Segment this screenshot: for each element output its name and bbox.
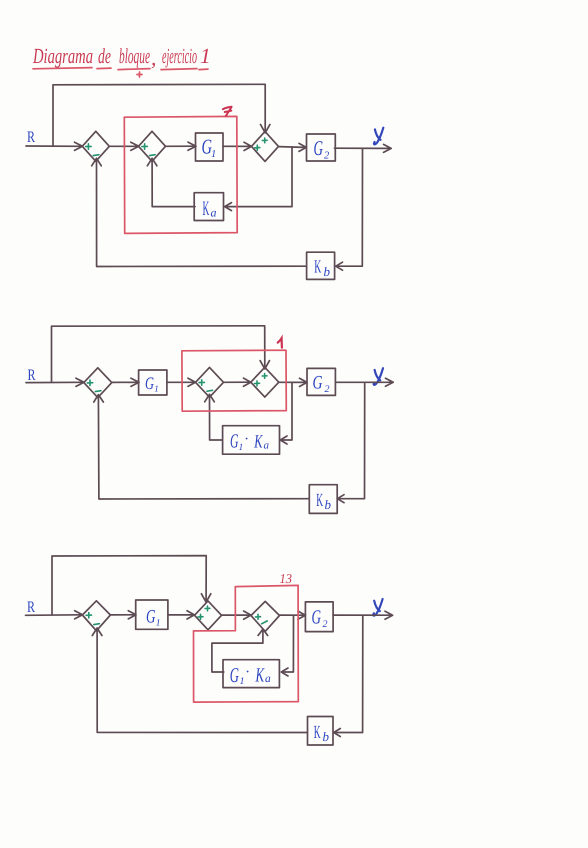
summing junction S2a: [84, 368, 112, 398]
svg-text:K: K: [254, 432, 264, 453]
svg-text:2: 2: [324, 151, 330, 162]
svg-text:K: K: [255, 665, 265, 687]
svg-text:b: b: [323, 729, 330, 744]
svg-text:a: a: [264, 440, 270, 452]
summing junction S2b: [196, 367, 224, 397]
block G2 (diagram 1): [307, 134, 336, 162]
summing junction S1a: [82, 131, 109, 161]
svg-text:1: 1: [154, 384, 159, 394]
node R (input label, diagram 3): [27, 599, 35, 616]
red label 13: [280, 571, 293, 586]
wire: S2c to block G2: [279, 378, 307, 386]
minus sign in S2a: [95, 390, 101, 393]
wire: G1Ka output left, up, right and up into S3c minus input: [212, 629, 268, 672]
wire: feedforward bypass from R line over the top into S3b: [52, 556, 211, 615]
svg-text:K: K: [203, 198, 210, 220]
summing junction S3a: [82, 601, 110, 631]
wire: feedforward bypass from R line over the top into S1c: [53, 84, 270, 146]
svg-text:R: R: [27, 129, 35, 146]
minus sign in S3a: [94, 623, 100, 626]
wire: G1Ka output left and up into S2b minus input: [205, 394, 223, 440]
svg-text:a: a: [265, 673, 271, 685]
block G1 (diagram 2): [139, 370, 167, 395]
svg-text:G: G: [146, 607, 156, 628]
minus sign in S2b: [207, 389, 213, 392]
svg-text:2: 2: [325, 384, 330, 395]
svg-text:2: 2: [323, 619, 328, 630]
svg-text:G: G: [230, 663, 239, 687]
svg-text:G: G: [145, 373, 154, 393]
plus sign in S2a: [87, 380, 92, 385]
svg-text:1: 1: [200, 44, 211, 68]
red grouping box (diagram 1): [124, 116, 237, 233]
svg-text:R: R: [28, 367, 36, 384]
minus sign in S1b: [150, 154, 156, 157]
svg-text:1: 1: [240, 676, 245, 687]
wire: Ka output left and up into S1b minus input: [147, 158, 195, 206]
wire: Kb output left and up into S2a minus input (diagram 2): [94, 395, 309, 499]
svg-text:Diagrama: Diagrama: [32, 44, 93, 68]
block G2 (diagram 3): [305, 602, 333, 632]
plus sign top in S2c: [262, 374, 267, 379]
block Ka (diagram 1): [194, 193, 223, 221]
block G1 (diagram 1): [196, 133, 224, 161]
wire: G1 to sum S2b: [167, 378, 196, 386]
wire: R input to sum S3a: [26, 611, 83, 619]
svg-text:K: K: [314, 258, 321, 278]
wire: takeoff after S3c down and left into G1Ka box (diagram 3): [281, 615, 293, 676]
title: Diagrama de bloque, ejercicio 1: [32, 44, 210, 77]
wire: G2 to output Y: [335, 144, 392, 152]
block Kb (diagram 3): [308, 717, 334, 746]
wire: Kb output left and up into S1a minus input: [92, 158, 306, 266]
plus sign left in S1c: [255, 145, 260, 150]
wire: S3b to sum S3c: [222, 611, 252, 619]
svg-text:G: G: [230, 431, 239, 453]
summing junction S2c: [251, 367, 279, 397]
block G1·Ka (diagram 3): [223, 660, 279, 688]
summing junction S3c: [251, 601, 280, 631]
wire: S3c to block G2: [280, 611, 306, 619]
wire: S2b to sum S2c: [224, 378, 251, 386]
svg-text:1: 1: [156, 619, 161, 629]
plus sign in S3c: [256, 614, 261, 619]
svg-text:G: G: [314, 136, 324, 160]
summing junction S1c: [252, 131, 279, 161]
wire: takeoff after S1c down and left into Ka: [225, 147, 292, 211]
red grouping box (diagram 3, notched outline): [194, 585, 299, 702]
wire: feedforward bypass from R line over the top into S2c: [52, 326, 270, 383]
block G2 (diagram 2): [307, 368, 335, 395]
block G1 (diagram 3): [136, 600, 168, 629]
node R (input label, diagram 1): [27, 129, 35, 146]
plus sign left in S3b: [198, 614, 203, 619]
node Y (output label, diagram 1): [374, 128, 383, 145]
node R (input label, diagram 2): [28, 367, 36, 384]
wire: G1 to sum S3b: [168, 611, 195, 619]
svg-text:R: R: [27, 599, 35, 616]
summing junction S1b: [139, 131, 166, 161]
plus sign top in S3b: [205, 606, 210, 611]
plus sign in S1a: [86, 144, 91, 149]
wire: G2 to output Y: [336, 378, 393, 386]
svg-text:ejercicio: ejercicio: [162, 44, 197, 68]
plus sign left in S2c: [255, 381, 260, 386]
svg-text:·: ·: [245, 432, 249, 448]
summing junction S3b: [195, 601, 222, 630]
svg-text:K: K: [316, 491, 323, 511]
svg-text:G: G: [313, 373, 323, 394]
red label 1: [278, 338, 282, 347]
svg-text:,: ,: [151, 46, 156, 70]
block G1·Ka (diagram 2): [223, 426, 280, 455]
wire: S2a to block G1: [112, 378, 139, 386]
node Y (output label, diagram 3): [373, 599, 382, 616]
svg-text:a: a: [211, 206, 217, 220]
red label 7: [223, 107, 232, 116]
svg-text:13: 13: [280, 571, 293, 586]
wire: G1 to sum S1c: [223, 142, 252, 150]
svg-text:de: de: [98, 44, 111, 68]
svg-text:1: 1: [239, 443, 244, 453]
svg-text:bloque: bloque: [119, 44, 150, 68]
plus sign top in S1c: [262, 138, 267, 143]
svg-text:b: b: [324, 264, 331, 279]
wire: takeoff after G2 down and left into Kb: [336, 148, 363, 270]
svg-text:·: ·: [246, 665, 250, 681]
svg-text:K: K: [314, 723, 321, 743]
wire: takeoff after G2 down and left into Kb (diagram 2): [337, 382, 364, 502]
wire: G2 to output Y: [333, 611, 393, 619]
wire: takeoff after G2 down and left into Kb (diagram 3): [334, 615, 363, 736]
red grouping box (diagram 2): [182, 350, 286, 411]
minus sign in S3c: [262, 621, 268, 624]
wire: S1a to S1b: [109, 142, 139, 150]
svg-text:b: b: [325, 497, 332, 512]
wire: S1b to block G1: [166, 142, 197, 150]
node Y (output label, diagram 2): [374, 368, 383, 385]
wire: takeoff after S2c down and left into G1Ka box: [280, 382, 292, 444]
wire: R input to sum S1a: [26, 142, 83, 150]
wire: Kb output left and up into S3a minus input (diagram 3): [92, 628, 307, 733]
plus sign in S2b: [199, 380, 204, 385]
plus sign in S3a: [86, 613, 91, 618]
plus sign in S1b: [142, 144, 147, 149]
minus sign in S1a: [93, 154, 99, 157]
svg-text:G: G: [312, 607, 322, 629]
wire: S1c to block G2: [279, 143, 307, 151]
block Kb (diagram 2): [309, 485, 337, 514]
svg-text:1: 1: [211, 149, 216, 160]
wire: S3a to block G1: [110, 611, 136, 619]
block Kb (diagram 1): [307, 252, 335, 279]
wire: R input to sum S2a: [26, 378, 84, 386]
